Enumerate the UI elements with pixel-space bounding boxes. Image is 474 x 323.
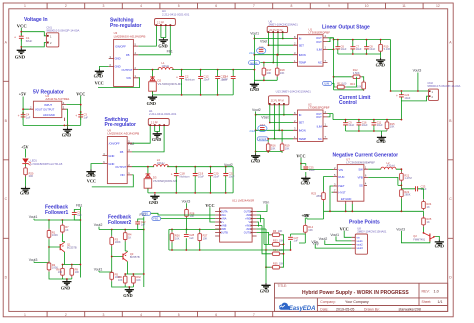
net port FB2 to opamp (152, 217, 161, 221)
svg-text:VIN: VIN (120, 173, 125, 177)
svg-text:Vout1: Vout1 (330, 233, 339, 237)
svg-text:1uF: 1uF (189, 236, 194, 240)
LED LED1 (22, 159, 31, 166)
svg-text:Vout3: Vout3 (182, 200, 191, 204)
ground 5V regulator (67, 125, 69, 127)
wire Vout1 row (34, 219, 80, 220)
resistor R18 (275, 66, 279, 77)
wire VCC to VIN (301, 158, 333, 170)
svg-text:10K: 10K (203, 236, 208, 240)
wire U11 right pins weave (257, 215, 269, 235)
svg-text:10uF: 10uF (348, 123, 354, 127)
wire Vout2 to U8 pin3 (325, 240, 352, 244)
svg-text:LT3081ERQPBF: LT3081ERQPBF (308, 106, 330, 110)
svg-text:SS: SS (359, 184, 363, 188)
svg-text:10uF: 10uF (203, 77, 209, 81)
svg-text:10uF: 10uF (377, 123, 383, 127)
resistor R2 (47, 261, 51, 272)
svg-text:GND: GND (123, 293, 132, 298)
resistor R28 (185, 208, 189, 219)
svg-text:EasyEDA: EasyEDA (289, 306, 316, 312)
svg-text:10uF: 10uF (222, 77, 228, 81)
capacitor C19 (193, 171, 198, 179)
capacitor C24 (399, 92, 404, 100)
resistor R16 (266, 142, 270, 153)
resistor R11 (335, 85, 346, 89)
svg-text:2MEY-104CNG15NA01: 2MEY-104CNG15NA01 (282, 89, 312, 93)
capacitor C15 highlighted (257, 48, 266, 54)
capacitor C28 (185, 229, 187, 250)
svg-text:4: 4 (140, 4, 142, 8)
svg-text:+5V: +5V (19, 92, 27, 97)
ground LED (21, 186, 30, 192)
svg-text:LM324ANSR: LM324ANSR (238, 198, 254, 202)
svg-text:1/1: 1/1 (438, 300, 443, 304)
wire U2 OUT merge to mid rail (328, 114, 401, 120)
title block (275, 283, 448, 311)
svg-text:+: + (396, 94, 398, 98)
frame row ticks right (448, 81, 454, 238)
svg-text:GND: GND (86, 173, 95, 178)
svg-text:BC557B: BC557B (67, 245, 77, 249)
wire U1 TEMP (260, 62, 293, 64)
svg-text:Q2: Q2 (413, 234, 417, 238)
wire negative rail (324, 199, 424, 212)
diode D2 (152, 70, 154, 78)
svg-text:100K: 100K (115, 240, 121, 244)
svg-text:vout1: vout1 (357, 240, 364, 243)
svg-text:FB1: FB1 (167, 50, 173, 54)
svg-text:GND: GND (152, 137, 161, 142)
svg-text:VIN: VIN (339, 168, 344, 172)
svg-text:2.211-0411-0021-001: 2.211-0411-0021-001 (149, 112, 177, 116)
wire Vout3 to Q2 base (401, 231, 430, 243)
capacitor C18 (174, 171, 179, 179)
wire positive output down right (391, 40, 429, 91)
svg-text:10K: 10K (285, 147, 290, 151)
svg-text:+: + (171, 173, 173, 177)
svg-text:10K: 10K (267, 71, 272, 75)
ground at Vout1 bus bottom (250, 82, 259, 88)
wire mid caps bottom rail (346, 131, 388, 135)
svg-text:2.211-0411-0021-001: 2.211-0411-0021-001 (162, 13, 190, 17)
net port temp2 (257, 137, 268, 141)
wire U2 IN (256, 114, 293, 116)
frame column ticks bottom (47, 311, 273, 316)
svg-text:1K: 1K (427, 220, 430, 224)
wire U13 pin drops (270, 105, 284, 139)
wire U6 pin drops (269, 33, 283, 63)
wire H4 pins 2,3 to GND (161, 26, 166, 38)
svg-text:Company:: Company: (320, 300, 336, 304)
svg-text:10K: 10K (308, 228, 313, 232)
svg-text:1K: 1K (427, 205, 430, 209)
resistor R32 (132, 274, 136, 285)
svg-text:U11: U11 (232, 198, 237, 202)
resistor ladder R6 (271, 233, 282, 237)
svg-text:TITLE:: TITLE: (278, 284, 288, 288)
svg-text:2.2 PF: 2.2 PF (151, 122, 159, 125)
svg-text:VCC: VCC (76, 91, 85, 96)
svg-text:GND: GND (376, 139, 385, 144)
svg-text:HYST: HYST (339, 190, 347, 194)
svg-text:R35: R35 (273, 262, 278, 265)
svg-text:TEMP: TEMP (299, 137, 307, 141)
svg-text:Vout1: Vout1 (94, 267, 103, 271)
resistor R23 (322, 191, 326, 202)
resistor R14 (304, 223, 308, 234)
svg-text:GND: GND (61, 286, 70, 291)
svg-text:Sheet:: Sheet: (422, 300, 432, 304)
svg-text:10uF: 10uF (341, 47, 347, 51)
capacitor C13 (215, 74, 220, 82)
svg-text:2C PL PF M: 2C PL PF M (269, 29, 282, 32)
wire H4 pin4 to FB net (138, 26, 170, 55)
wire R17/R18 bottom rail to gnd bus (254, 79, 277, 81)
svg-text:Vout3: Vout3 (29, 258, 38, 262)
svg-text:+: + (75, 114, 77, 118)
svg-text:2C PL PF M: 2C PL PF M (271, 99, 284, 102)
svg-text:Follower2: Follower2 (108, 220, 132, 226)
svg-text:2MEY-104CNG15NA01: 2MEY-104CNG15NA01 (269, 22, 299, 26)
svg-text:C17: C17 (260, 123, 265, 127)
capacitor C14 (231, 74, 236, 82)
svg-text:Vout1: Vout1 (29, 215, 38, 219)
capacitor C3 (78, 112, 83, 120)
wire FB2 port to U11 (161, 218, 215, 220)
svg-text:2.2 PF: 2.2 PF (157, 22, 165, 25)
ground under H1 (153, 132, 162, 138)
svg-text:GND: GND (20, 191, 29, 196)
wire output top rail (330, 38, 391, 44)
wire ladder connections (262, 219, 284, 268)
svg-text:1: 1 (24, 313, 26, 317)
svg-text:10K: 10K (357, 85, 362, 89)
svg-text:6: 6 (215, 4, 217, 8)
svg-text:1uF: 1uF (294, 239, 299, 243)
svg-text:GND: GND (250, 87, 259, 92)
svg-text:10uF: 10uF (213, 175, 219, 179)
svg-text:280K: 280K (316, 194, 322, 198)
svg-text:NC: NC (318, 61, 322, 65)
capacitor C1 (19, 33, 24, 41)
svg-text:VCC: VCC (340, 226, 349, 231)
frame row letters (5, 41, 453, 280)
svg-text:VSn: VSn (263, 201, 270, 205)
svg-text:10K: 10K (271, 147, 276, 151)
svg-text:5.10K: 5.10K (384, 47, 391, 51)
resistor R21 (400, 171, 404, 182)
wire U3 GND pin to ground (99, 67, 108, 70)
wire ISET down (330, 186, 333, 211)
capacitor C20 (208, 171, 213, 179)
svg-text:starwalker298: starwalker298 (399, 308, 421, 312)
svg-text:GND: GND (147, 101, 156, 106)
svg-text:9650010 5.08-02P-14-00A: 9650010 5.08-02P-14-00A (427, 84, 460, 88)
capacitor C27 (290, 234, 292, 250)
svg-text:VSet: VSet (261, 116, 268, 120)
resistor R19 (280, 142, 284, 153)
wire follower2 gnd rail (125, 285, 133, 287)
svg-text:Vout3: Vout3 (396, 228, 405, 232)
svg-text:GND: GND (158, 43, 167, 48)
ground Q2 (435, 240, 444, 246)
svg-text:10uF: 10uF (369, 47, 375, 51)
svg-text:8: 8 (291, 4, 293, 8)
svg-text:AZ1117H-5.0TRE1: AZ1117H-5.0TRE1 (45, 97, 70, 101)
capacitor C25 (301, 164, 306, 177)
svg-text:Vout2: Vout2 (94, 223, 103, 227)
svg-text:9650010 5.08-02P-14-00A: 9650010 5.08-02P-14-00A (46, 29, 79, 33)
svg-text:6: 6 (215, 313, 217, 317)
svg-text:Nichicon: Nichicon (185, 77, 196, 81)
svg-text:100uH: 100uH (157, 161, 165, 165)
resistor R24 (422, 200, 426, 211)
frame column ticks top (47, 3, 423, 9)
svg-text:GND: GND (108, 154, 114, 158)
wire Vout2 vertical bus (255, 111, 257, 153)
svg-text:7: 7 (253, 4, 255, 8)
svg-text:VSet: VSet (260, 40, 267, 44)
ground left of U9 (86, 169, 95, 175)
svg-text:GND: GND (251, 158, 260, 163)
wire U1 OUT merge (328, 38, 334, 42)
svg-text:temp2: temp2 (259, 137, 267, 141)
capacitor C9 (343, 120, 348, 128)
svg-text:10uF: 10uF (404, 96, 410, 100)
capacitor C6 (335, 44, 340, 52)
svg-text:5: 5 (178, 313, 180, 317)
svg-text:VCC: VCC (95, 80, 104, 85)
svg-text:3: 3 (103, 4, 105, 8)
svg-text:LTC3630EMS8E#PBF: LTC3630EMS8E#PBF (346, 161, 375, 165)
svg-text:10K: 10K (75, 271, 80, 274)
capacitor C17 highlighted (258, 125, 267, 131)
svg-text:U13: U13 (276, 89, 282, 93)
svg-text:Hybrid Power Supply - WORK IN: Hybrid Power Supply - WORK IN PROGRESS (302, 290, 409, 296)
svg-text:REV:: REV: (422, 290, 430, 294)
wire bottom rail to C27/gnd (266, 249, 291, 251)
wire opamp input top rail (169, 228, 220, 230)
svg-text:1uF: 1uF (77, 213, 82, 217)
ground (17, 48, 26, 54)
transistor Q3 BC557B (123, 251, 127, 274)
resistor R5 (110, 271, 114, 282)
svg-text:Vout2: Vout2 (252, 108, 261, 112)
svg-text:R13: R13 (350, 82, 355, 86)
svg-text:U-5321B/WRTGLCTR-A5: U-5321B/WRTGLCTR-A5 (30, 162, 62, 166)
svg-text:GND: GND (301, 180, 310, 185)
svg-text:3.50K: 3.50K (353, 71, 360, 75)
wire Vout3 row (34, 261, 49, 262)
svg-text:Drawn By:: Drawn By: (364, 308, 380, 312)
svg-text:VCC: VCC (17, 24, 27, 29)
ground follower2 (125, 287, 134, 293)
transistor Q1 BC557B (49, 242, 65, 265)
svg-text:VOUT OUTPUT: VOUT OUTPUT (35, 107, 55, 111)
svg-text:1K: 1K (65, 228, 68, 232)
svg-text:OUTC: OUTC (244, 232, 251, 235)
svg-text:R34: R34 (273, 249, 278, 252)
resistor R13 (362, 80, 366, 91)
svg-text:vout2: vout2 (357, 244, 364, 247)
ground caps row (376, 58, 385, 64)
svg-text:VIN: VIN (126, 76, 131, 80)
svg-text:10K: 10K (118, 279, 123, 282)
wire follower1 collector row (63, 265, 81, 267)
wire VCC to U11 (210, 207, 215, 222)
wire VCC to GND vertical through C1 (20, 28, 22, 48)
ground of switcher1 rail (148, 95, 157, 101)
capacitor C11 (372, 120, 377, 128)
svg-text:24uF: 24uF (249, 51, 256, 55)
wire VCC rail right (66, 96, 80, 126)
svg-text:OUTPUT: OUTPUT (115, 165, 126, 169)
wire U1 IN (254, 38, 293, 40)
svg-text:Vout3: Vout3 (413, 69, 422, 73)
wire VFB node (368, 177, 415, 188)
wire R13 bottom loop (334, 89, 364, 91)
svg-text:LT3081ERQPBF: LT3081ERQPBF (309, 30, 331, 34)
svg-text:7: 7 (253, 313, 255, 317)
wire U2 TEMP (269, 138, 294, 140)
resistor R26 (170, 232, 174, 243)
svg-text:Probe Points: Probe Points (349, 219, 380, 225)
resistor R12 (351, 75, 362, 79)
svg-text:OUTPUT: OUTPUT (122, 68, 133, 72)
svg-text:OUTB: OUTB (221, 232, 228, 235)
svg-text:R33: R33 (273, 240, 278, 243)
wire U9 OUTPUT rail to Vout2 (132, 167, 233, 193)
svg-text:VCC: VCC (87, 179, 96, 184)
wire U1 IMON (254, 54, 293, 56)
capacitor C5 (74, 210, 80, 221)
inductor L1 (158, 68, 173, 70)
svg-text:Date:: Date: (320, 308, 328, 312)
wire Vout3 to R28 (186, 203, 188, 207)
svg-text:1K: 1K (128, 235, 131, 239)
svg-text:/ON/OFF: /ON/OFF (109, 142, 120, 146)
wire VSn to U8 pin4 (315, 244, 351, 248)
svg-text:LM2596SX-ADJ/NOPB: LM2596SX-ADJ/NOPB (114, 35, 146, 39)
svg-text:2: 2 (65, 313, 67, 317)
svg-text:12: 12 (436, 4, 440, 8)
svg-text:10K: 10K (136, 279, 141, 282)
svg-text:4: 4 (140, 313, 142, 317)
svg-text:10uF: 10uF (356, 47, 362, 51)
wire VOUT pin drop (66, 109, 67, 125)
svg-text:10uF: 10uF (229, 175, 235, 179)
wire VSn to U11 right (257, 204, 267, 211)
resistor R20 (24, 166, 28, 177)
wire FB2 vertical (143, 217, 145, 287)
svg-text:GND: GND (115, 65, 121, 69)
svg-text:GND: GND (115, 57, 121, 61)
svg-text:Pre-regulator: Pre-regulator (105, 122, 136, 128)
svg-text:10uF: 10uF (309, 168, 315, 172)
wire +5V rail left (23, 97, 29, 126)
svg-text:GND: GND (62, 133, 71, 138)
svg-text:Control: Control (339, 100, 357, 106)
resistor R15 (385, 120, 389, 131)
svg-text:1uF: 1uF (84, 115, 89, 119)
svg-text:SET: SET (299, 43, 305, 47)
svg-text:10K: 10K (279, 249, 284, 252)
wire ground rail under D3 row (148, 188, 233, 193)
capacitor C8 (364, 44, 369, 52)
svg-text:ADJ/GND: ADJ/GND (43, 113, 55, 117)
svg-text:1.0: 1.0 (434, 290, 439, 294)
svg-text:SET: SET (299, 121, 305, 125)
resistor R4 (123, 231, 127, 242)
wire FB1 port to U11 (151, 213, 215, 215)
connector CN1 (46, 33, 58, 47)
wire Vout1 to U8 pin2 (336, 236, 352, 241)
svg-text:IMON: IMON (299, 53, 306, 57)
svg-text:Pre-regulator: Pre-regulator (110, 23, 141, 29)
svg-text:1uF: 1uF (141, 223, 146, 227)
svg-text:OUT: OUT (316, 115, 322, 119)
svg-text:1uF: 1uF (26, 115, 31, 119)
capacitor C12 (198, 74, 203, 82)
ground at Vout2 bus bottom (251, 154, 260, 160)
inductor L3 (153, 165, 168, 167)
wire ILIM vertical (328, 40, 334, 90)
svg-text:Negative Current Generator: Negative Current Generator (333, 153, 399, 159)
svg-text:11: 11 (402, 4, 406, 8)
svg-text:Vout2: Vout2 (319, 237, 328, 241)
svg-text:SW: SW (358, 167, 363, 171)
svg-text:VSp: VSp (312, 242, 319, 246)
svg-text:10K: 10K (390, 125, 395, 129)
svg-text:24uF: 24uF (249, 129, 256, 133)
resistor R3 (110, 236, 114, 247)
svg-text:FB: FB (126, 53, 130, 57)
capacitor C22 (138, 219, 144, 230)
wire U9 GND pin to ground (91, 164, 103, 170)
node junction VCC wire (20, 31, 22, 33)
svg-text:2MEY-104CNG15NA01: 2MEY-104CNG15NA01 (357, 230, 387, 234)
svg-text:10K: 10K (279, 240, 284, 243)
svg-text:+5V: +5V (21, 144, 29, 149)
ground of switcher2 rail (150, 194, 159, 200)
svg-text:Your Company: Your Company (345, 300, 369, 304)
resistor R7 (61, 223, 65, 234)
capacitor C2 (179, 74, 184, 82)
wire H1 pin4 to FB2 net (132, 126, 164, 152)
wire U9 VIN to VCC (92, 175, 134, 187)
net port FB1 to opamp (142, 211, 151, 215)
svg-text:VS-50WQ03FN-M3: VS-50WQ03FN-M3 (153, 179, 178, 183)
svg-text:BC557B: BC557B (130, 255, 140, 259)
wire U2 IMON (256, 129, 293, 131)
svg-text:IN: IN (299, 37, 302, 41)
svg-text:GND: GND (376, 62, 385, 67)
ground mid caps (377, 135, 386, 141)
svg-text:+5V: +5V (301, 213, 309, 218)
ground under H4 (159, 38, 168, 44)
svg-text:Voltage In: Voltage In (24, 17, 48, 23)
wire U3 VIN to VCC (98, 78, 140, 88)
svg-text:temp1: temp1 (250, 61, 258, 65)
wire FB1 vertical (79, 207, 81, 278)
svg-text:280K: 280K (404, 193, 410, 197)
resistor R31 (123, 274, 127, 285)
svg-text:VFB: VFB (357, 176, 362, 180)
ground follower1 (62, 279, 71, 285)
wire Vout1 vertical bus (253, 35, 255, 82)
svg-text:FB2: FB2 (153, 217, 158, 221)
